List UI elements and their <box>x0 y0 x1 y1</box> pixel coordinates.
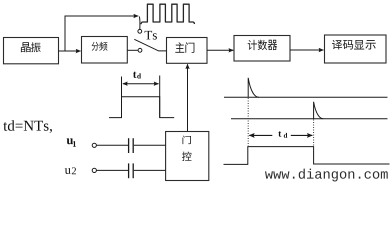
waveform: clock pulse train <box>141 4 195 24</box>
watermark www.diangon.com <box>265 169 388 182</box>
wire: 门控 up to 主门 with arrow <box>187 64 189 131</box>
u1 input terminal <box>92 143 96 147</box>
double arrow td right <box>249 134 272 136</box>
box: crystal oscillator 晶振 <box>4 38 59 64</box>
wire: branch from node up and right to switch <box>65 16 138 51</box>
waveform: gate pulse left <box>109 97 174 118</box>
label u2 <box>65 168 71 174</box>
waveform: u1 row baseline <box>224 96 388 98</box>
waveform: gate pulse right <box>224 147 390 165</box>
measure bar right (td) <box>159 76 161 118</box>
box: frequency divider 分频 <box>82 37 128 64</box>
u2 wire to 门控 <box>134 169 166 171</box>
waveform: u2 row baseline <box>231 118 388 120</box>
capacitor C1 <box>128 138 130 153</box>
label td (left measure) <box>133 72 136 78</box>
dotted guide right <box>313 120 315 147</box>
switch top contact <box>138 29 142 33</box>
text 晶振 <box>21 42 31 52</box>
wire: 晶振 to 分频 with arrow <box>59 50 81 52</box>
label td=NTs, <box>3 120 52 133</box>
text 主门 <box>175 42 184 52</box>
text 计数器 <box>248 40 257 50</box>
u1 wire <box>97 144 128 146</box>
measure bar left (td) <box>121 77 123 118</box>
box: main gate 主门 <box>167 38 208 64</box>
switch bottom contact <box>138 48 142 52</box>
double arrow td <box>123 83 159 85</box>
capacitor C2 <box>128 163 130 178</box>
text 分频 <box>92 42 99 51</box>
text 译码显示 <box>332 40 342 50</box>
text 门控 <box>182 136 191 145</box>
u2 input terminal <box>92 168 96 172</box>
u1 wire to 门控 <box>134 144 166 146</box>
wire: down to switch top contact <box>138 17 141 30</box>
box: counter 计数器 <box>234 36 290 62</box>
box: decoder display 译码显示 <box>325 35 387 63</box>
label td (right measure) <box>278 131 281 136</box>
u2 wire <box>97 169 128 171</box>
wire: 分频 to switch bottom contact <box>127 49 138 51</box>
u1 differentiated spike <box>248 78 259 98</box>
label Ts <box>145 31 157 40</box>
wire: 主门 to 计数器 with arrow <box>207 49 233 51</box>
u2 differentiated spike <box>314 102 324 119</box>
box: gate control 门控 <box>166 132 209 181</box>
dotted guide left <box>247 98 249 146</box>
switch arm Ts <box>134 39 166 51</box>
wire: 计数器 to 译码显示 with arrow <box>290 49 323 51</box>
label u1 <box>67 138 73 144</box>
